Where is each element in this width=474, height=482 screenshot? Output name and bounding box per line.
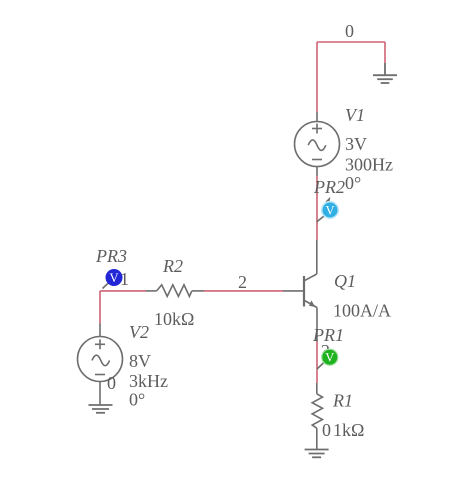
svg-text:0: 0 xyxy=(322,420,331,440)
svg-text:300Hz: 300Hz xyxy=(345,155,393,175)
svg-text:2: 2 xyxy=(238,272,247,292)
wire Q1 emitter to R1 (net 3) xyxy=(316,342,318,384)
wire V1 top vertical xyxy=(316,42,318,112)
svg-text:R2: R2 xyxy=(162,256,183,276)
svg-text:PR2: PR2 xyxy=(313,177,345,197)
resistor R2 xyxy=(146,285,204,297)
probe PR2 xyxy=(317,197,339,222)
svg-text:3kHz: 3kHz xyxy=(129,371,168,391)
ac source V1 xyxy=(295,112,340,176)
svg-text:V: V xyxy=(325,204,334,218)
svg-text:100A/A: 100A/A xyxy=(333,301,391,321)
svg-text:Q1: Q1 xyxy=(334,271,356,291)
resistor R1 xyxy=(312,383,322,450)
wire V1 to Q1 collector xyxy=(316,176,318,240)
wire R2 to Q1 base (net 2) xyxy=(204,290,283,292)
wire net 0 top horizontal xyxy=(317,41,385,43)
wire to top-right ground xyxy=(384,42,386,63)
probe PR1 xyxy=(317,349,338,369)
ground (bottom right) xyxy=(305,450,329,458)
svg-text:PR3: PR3 xyxy=(95,246,127,266)
ac source V2 xyxy=(78,324,123,406)
svg-text:V: V xyxy=(325,351,334,365)
wire node 1 to R2 xyxy=(100,290,146,292)
svg-text:PR1: PR1 xyxy=(312,325,344,345)
svg-text:0: 0 xyxy=(107,373,116,393)
svg-text:0°: 0° xyxy=(345,173,361,193)
wire node 1 down to V2 xyxy=(99,291,101,324)
svg-text:1kΩ: 1kΩ xyxy=(333,420,364,440)
ground (top right) xyxy=(373,63,397,83)
svg-text:R1: R1 xyxy=(332,391,353,411)
svg-text:V: V xyxy=(109,271,118,285)
ground (below V2) xyxy=(89,405,113,413)
probe PR3 xyxy=(103,269,123,289)
transistor Q1 xyxy=(283,240,317,342)
svg-text:0°: 0° xyxy=(129,390,145,410)
svg-text:8V: 8V xyxy=(129,351,151,371)
svg-text:3V: 3V xyxy=(345,134,367,154)
svg-text:V2: V2 xyxy=(129,322,149,342)
svg-text:0: 0 xyxy=(345,21,354,41)
svg-text:10kΩ: 10kΩ xyxy=(154,309,194,329)
svg-text:V1: V1 xyxy=(345,105,365,125)
